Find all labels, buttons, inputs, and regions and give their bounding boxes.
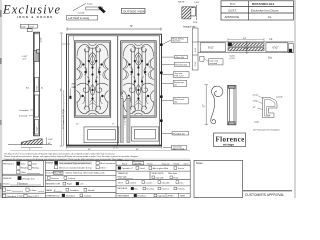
svg-text:Disc.: Disc.	[179, 182, 184, 184]
svg-text:DESIGN: DESIGN	[3, 178, 12, 180]
svg-text:GLASS/JAMB TYPE: GLASS/JAMB TYPE	[118, 159, 136, 162]
svg-text:Adv airglass filled: Adv airglass filled	[153, 167, 169, 170]
svg-text:Operable: Operable	[161, 182, 170, 184]
svg-text:72": 72"	[130, 25, 134, 28]
svg-text:Separate: Separate	[162, 162, 171, 165]
svg-text:Int.: Int.	[41, 87, 44, 90]
svg-text:6"x2": 6"x2"	[30, 26, 35, 28]
svg-text:Matt Blk: Matt Blk	[54, 172, 63, 175]
svg-text:Other: Other	[184, 162, 189, 165]
svg-text:96": 96"	[61, 88, 63, 91]
svg-text:Other: Other	[21, 171, 27, 174]
svg-text:1/2": 1/2"	[253, 107, 257, 109]
svg-text:Operable: Operable	[155, 177, 164, 179]
svg-text:Railing: Railing	[32, 168, 39, 170]
svg-text:(Alum Detail): (Alum Detail)	[173, 148, 185, 151]
svg-text:3/4": 3/4"	[243, 38, 247, 40]
svg-text:Wrought Iron: Wrought Iron	[22, 177, 35, 180]
svg-text:6"x2": 6"x2"	[208, 47, 214, 50]
svg-text:JAMB: JAMB	[46, 189, 52, 192]
svg-text:PACKAGE: PACKAGE	[118, 187, 128, 190]
svg-text:Door: Door	[21, 163, 26, 166]
svg-text:CUST.: CUST.	[228, 8, 237, 12]
svg-text:CUSTOMERS APPROVAL: CUSTOMERS APPROVAL	[245, 193, 284, 197]
svg-text:Screen: Screen	[178, 168, 184, 170]
svg-text:Crate(+): Crate(+)	[161, 188, 169, 191]
svg-text:(Set 2-1/2"): (Set 2-1/2")	[28, 195, 39, 198]
svg-text:Insulated: Insulated	[19, 115, 27, 118]
svg-text:Right: Right	[67, 183, 72, 186]
svg-text:Included: Included	[210, 63, 218, 65]
svg-text:Inside: Inside	[87, 3, 93, 5]
svg-text:PRODUCT: PRODUCT	[3, 163, 14, 165]
svg-text:American standard double durin: American standard double during	[59, 166, 92, 169]
svg-text:Handle: Handle	[88, 190, 96, 192]
svg-text:1/2": 1/2"	[48, 143, 52, 145]
svg-text:4 Gate:: 4 Gate:	[30, 189, 38, 192]
svg-text:Plated: Plated	[174, 162, 180, 165]
svg-text:36": 36"	[136, 149, 139, 151]
svg-text:Exclusive Iron Doors: Exclusive Iron Doors	[251, 8, 279, 12]
svg-text:Wdw Split: Wdw Split	[168, 172, 177, 175]
svg-text:UPS/Fx: UPS/Fx	[167, 195, 174, 197]
svg-text:Custom: Custom	[84, 195, 92, 198]
svg-text:Standard: Standard	[137, 195, 145, 198]
svg-text:Florence: Florence	[16, 181, 28, 185]
svg-text:Custom: Custom	[145, 181, 152, 184]
svg-text:HARDWARE: HARDWARE	[118, 194, 130, 197]
svg-text:IRON & DOORS: IRON & DOORS	[17, 15, 52, 19]
svg-text:1-3/4": 1-3/4"	[194, 2, 200, 4]
svg-text:1-3/4": 1-3/4"	[193, 22, 199, 24]
svg-text:Ext.: Ext.	[26, 87, 30, 90]
svg-text:ROS7296CL8L2: ROS7296CL8L2	[252, 2, 275, 6]
svg-text:(In): (In)	[174, 102, 177, 104]
svg-text:Iron standard Topcoat with cle: Iron standard Topcoat with clear	[59, 162, 90, 165]
svg-text:Control: Control	[129, 181, 136, 184]
svg-text:KL: KL	[268, 15, 272, 19]
svg-text:45° Deadbolt 44" PQA: 45° Deadbolt 44" PQA	[62, 109, 65, 130]
svg-text:6"x2": 6"x2"	[195, 61, 197, 66]
svg-text:(Standard 1-7/8"): (Standard 1-7/8")	[7, 195, 24, 198]
svg-text:12": 12"	[76, 124, 79, 126]
svg-text:outside: outside	[276, 96, 283, 99]
svg-text:Name:: Name:	[4, 184, 11, 186]
svg-text:6"x2": 6"x2"	[273, 47, 279, 50]
svg-text:5": 5"	[29, 149, 31, 151]
svg-text:Flushbolt (In): Flushbolt (In)	[175, 63, 187, 66]
svg-text:4": 4"	[54, 190, 56, 192]
svg-text:Exclusive: Exclusive	[2, 3, 60, 17]
svg-text:Window: Window	[21, 168, 29, 170]
svg-text:COLOR: COLOR	[46, 173, 54, 175]
svg-text:(2-Pt): (2-Pt)	[230, 57, 235, 60]
svg-text:36": 36"	[88, 149, 91, 151]
svg-text:1'-10 7/8": 1'-10 7/8"	[125, 117, 127, 125]
svg-text:FINISH: FINISH	[46, 162, 54, 164]
svg-text:E: E	[113, 124, 115, 126]
svg-text:Notes:: Notes:	[196, 162, 204, 165]
svg-text:Deadbolt: Deadbolt	[70, 189, 79, 192]
svg-text:Black hardware: Black hardware	[100, 162, 116, 165]
svg-text:Fixed: Fixed	[122, 163, 127, 165]
svg-text:TRANSOM:: TRANSOM:	[118, 172, 129, 175]
svg-text:1-3/4": 1-3/4"	[253, 100, 259, 102]
svg-text:Operable: Operable	[133, 163, 142, 165]
svg-text:1-3/4": 1-3/4"	[48, 139, 54, 141]
svg-text:Size:: Size:	[7, 190, 12, 192]
svg-text:+1/2: +1/2	[22, 59, 27, 61]
svg-text:Delivery: Delivery	[177, 189, 184, 191]
svg-text:Dtl. Preparation for Installat: Dtl. Preparation for Installation	[253, 128, 280, 131]
svg-text:6"x2": 6"x2"	[21, 26, 26, 28]
svg-text:w/stage: w/stage	[222, 142, 234, 146]
svg-text:HINGE/DOOR: HINGE/DOOR	[46, 184, 61, 186]
svg-text:Sm-Ung: Sm-Ung	[146, 189, 153, 191]
svg-text:Operable +2: Operable +2	[122, 168, 134, 170]
svg-text:Box: Box	[134, 189, 137, 191]
svg-text:Custom: Custom	[68, 177, 76, 180]
svg-text:Other: Other	[100, 166, 106, 169]
svg-text:inside: inside	[254, 121, 260, 123]
svg-text:17": 17"	[203, 104, 206, 108]
svg-text:Fixed: Fixed	[140, 168, 145, 170]
svg-text:Raise: Raise	[148, 163, 154, 165]
svg-text:Int.: Int.	[269, 38, 273, 41]
svg-text:Lamination: Lamination	[19, 109, 29, 112]
svg-text:2-3/4": 2-3/4"	[41, 37, 43, 43]
svg-text:Steel (In): Steel (In)	[172, 40, 180, 43]
svg-text:THRESHOLD: THRESHOLD	[46, 196, 60, 198]
svg-text:Glass (In): Glass (In)	[175, 57, 184, 59]
svg-text:TITLE: TITLE	[118, 182, 124, 184]
svg-text:6"x2": 6"x2"	[37, 127, 39, 132]
svg-text:SIDELIGHTS:: SIDELIGHTS:	[152, 173, 165, 175]
svg-text:Wdw Split: Wdw Split	[118, 176, 127, 179]
svg-text:Screens: Screens	[51, 177, 60, 180]
svg-text:Left: Left	[80, 183, 84, 186]
svg-text:Standard: Standard	[66, 195, 76, 198]
svg-text:APPROVE: APPROVE	[225, 15, 240, 19]
svg-text:P.O.: P.O.	[230, 2, 236, 6]
svg-text:6"x2": 6"x2"	[37, 86, 39, 91]
svg-text:Flushbolt (In): Flushbolt (In)	[173, 132, 185, 135]
svg-text:Fixed: Fixed	[173, 177, 178, 179]
svg-text:Gate: Gate	[32, 163, 38, 166]
svg-text:Upgrade: Upgrade	[157, 196, 166, 198]
svg-text:Please verify all measurements: Please verify all measurements, design, …	[4, 155, 139, 158]
svg-text:Left Hand In-swing: Left Hand In-swing	[68, 17, 89, 20]
svg-text:RA 7/8": RA 7/8"	[178, 1, 185, 4]
svg-text:OUTSIDE VIEW: OUTSIDE VIEW	[123, 9, 145, 13]
svg-text:6"x2": 6"x2"	[195, 47, 197, 52]
svg-text:Outside: Outside	[78, 12, 86, 15]
svg-text:2½": 2½"	[72, 82, 76, 86]
svg-text:Ext.: Ext.	[268, 56, 273, 59]
svg-text:PTR. 12x7: PTR. 12x7	[174, 75, 184, 77]
svg-text:Walnut 70B Gray 70B Chal: Walnut 70B Gray 70B Chalet follows p/b	[66, 172, 106, 175]
svg-text:RATE: RATE	[180, 194, 186, 197]
svg-text:2-1/4": 2-1/4"	[253, 94, 259, 96]
